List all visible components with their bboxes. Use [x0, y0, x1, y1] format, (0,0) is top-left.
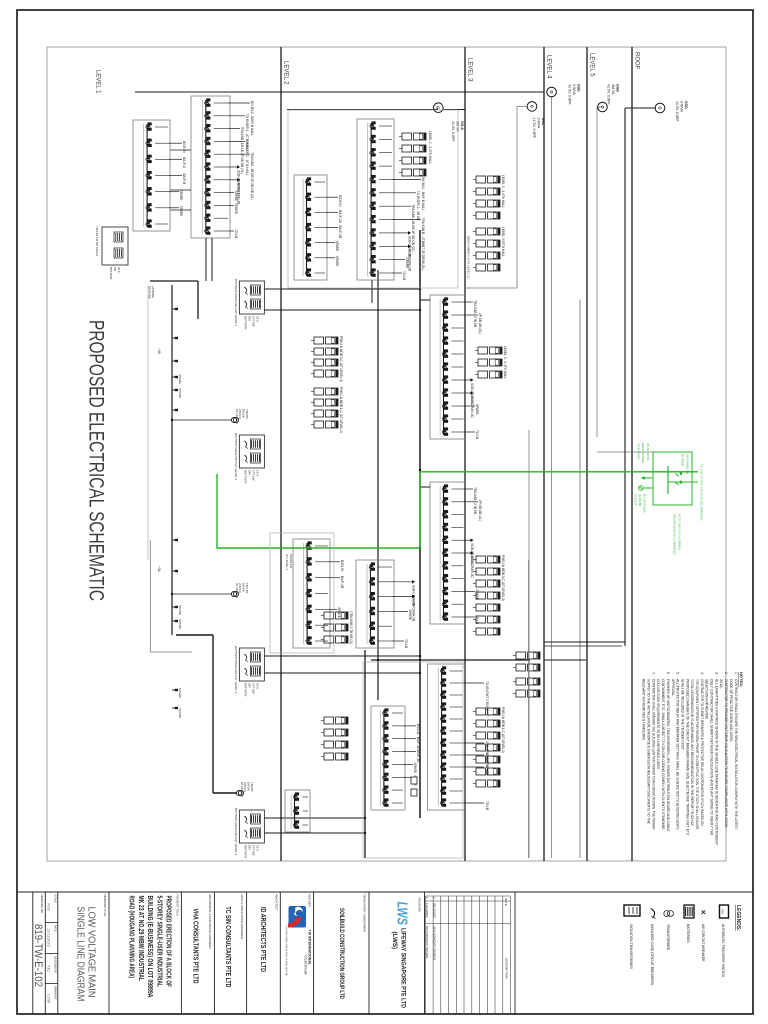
svg-text:SPARE: SPARE — [408, 609, 412, 620]
svg-text:TO RISER 2 - 2B KB: TO RISER 2 - 2B KB — [416, 191, 420, 221]
svg-text:3-IN MAI ROAD #05-02 TECH A MA: 3-IN MAI ROAD #05-02 TECH A MAX S(57 48) — [285, 926, 288, 976]
svg-text:CIVIL & STRUCTURAL ENGINEER: CIVIL & STRUCTURAL ENGINEER — [240, 895, 244, 939]
svg-text:ATS: ATS — [721, 909, 725, 915]
svg-text:3M VA: 3M VA — [455, 121, 459, 132]
svg-text:BATTERY RACK NO 8 AT LEVEL 1: BATTERY RACK NO 8 AT LEVEL 1 — [234, 808, 238, 856]
svg-text:PROPOSED ELECTRICAL SCHEMATIC: PROPOSED ELECTRICAL SCHEMATIC — [85, 320, 108, 601]
svg-text:B/L/F-2B: B/L/F-2B — [338, 226, 342, 239]
svg-text:N.T.S. 2005 C/O 1.6 SERIES: N.T.S. 2005 C/O 1.6 SERIES — [678, 514, 682, 550]
svg-text:05/12/2022: 05/12/2022 — [433, 903, 437, 918]
svg-text:LEVEL 1: LEVEL 1 — [95, 70, 101, 94]
svg-text:SUPPLY TO THE INSTALLATION, EN: SUPPLY TO THE INSTALLATION, ENDORSE & SU… — [647, 679, 651, 824]
svg-text:CreateWealth: CreateWealth — [304, 955, 308, 975]
svg-text:BATTERY RACK NO 8 AT LEVEL 1: BATTERY RACK NO 8 AT LEVEL 1 — [234, 433, 238, 481]
svg-text:BATTERY: BATTERY — [243, 845, 247, 859]
svg-text:5.: 5. — [676, 672, 680, 675]
svg-text:B/L/F-2B: B/L/F-2B — [340, 576, 344, 589]
svg-text:NTS: NTS — [47, 903, 51, 911]
svg-text:41 5V, 0.8PF: 41 5V, 0.8PF — [451, 121, 455, 142]
svg-text:PROPOSED CHANGES OF THE CIRCUI: PROPOSED CHANGES OF THE CIRCUIT BREAKER … — [685, 679, 689, 836]
svg-text:SPARE: SPARE — [335, 256, 339, 267]
svg-text:SCB-CRAH-3C: SCB-CRAH-3C — [470, 396, 474, 418]
svg-text:THE EQUIPMENT OFFERED FOR REVI: THE EQUIPMENT OFFERED FOR REVIEW PRIOR T… — [695, 679, 699, 830]
svg-text:DRAWN BY: DRAWN BY — [54, 986, 57, 1000]
svg-text:PNEU & MDB 1-C (AT LEVEL 1): PNEU & MDB 1-C (AT LEVEL 1) — [501, 707, 505, 753]
svg-text:BATTERY: BATTERY — [243, 316, 247, 330]
svg-text:TRA KAB - 1B KB 2P SB GB (2L): TRA KAB - 1B KB 2P SB GB (2L) — [250, 152, 254, 199]
svg-text:ALL PROTECTIVE RELAY AND BREAK: ALL PROTECTIVE RELAY AND BREAKER SETTING… — [676, 679, 680, 830]
svg-text:SPARE: SPARE — [178, 708, 182, 718]
svg-text:TOTAL DISCRIMINATION IS ACHIEV: TOTAL DISCRIMINATION IS ACHIEVABLE. ANY … — [690, 679, 694, 826]
svg-text:DESIGNED BY: DESIGNED BY — [54, 956, 57, 973]
svg-text:SINGLE LINE DIAGRAM: SINGLE LINE DIAGRAM — [75, 907, 86, 1002]
svg-text:SPITFIRE: SPITFIRE — [148, 286, 152, 299]
svg-text:DEVELOPER / LANDOWNER: DEVELOPER / LANDOWNER — [363, 895, 367, 933]
svg-text:BUILDER: BUILDER — [308, 895, 312, 907]
svg-text:AUTOMATIC TRANSFER SWITCH: AUTOMATIC TRANSFER SWITCH — [721, 924, 725, 978]
svg-text:TO LB: TO LB — [402, 271, 406, 280]
svg-text:TRA KAB-B - 2TB&BT 2P GRSB (2L: TRA KAB-B - 2TB&BT 2P GRSB (2L) — [421, 218, 425, 271]
svg-text:CODE OF PRACTICE SS538 AND SS5: CODE OF PRACTICE SS538 AND SS551. — [729, 679, 733, 743]
svg-text:4.: 4. — [700, 672, 704, 675]
svg-text:SPARE: SPARE — [475, 404, 479, 415]
svg-text:AIR CIRCUIT BREAKER: AIR CIRCUIT BREAKER — [701, 924, 705, 962]
svg-text:PNEU & MDB 3-C (AT LEVEL 3): PNEU & MDB 3-C (AT LEVEL 3) — [339, 336, 343, 382]
svg-text:PROPOSED ERECTION OF A BLOCK O: PROPOSED ERECTION OF A BLOCK OF — [165, 896, 172, 988]
svg-text:G: G — [529, 105, 534, 108]
svg-text:ROAD (HOUGANG PLANNING AREA): ROAD (HOUGANG PLANNING AREA) — [128, 896, 135, 979]
svg-text:PNEU & MDB 3-C (AT LEVEL 3): PNEU & MDB 3-C (AT LEVEL 3) — [501, 555, 505, 601]
svg-text:AT LEVEL 1: AT LEVEL 1 — [285, 554, 289, 570]
svg-text:41 5V, 0.8PF: 41 5V, 0.8PF — [675, 101, 679, 122]
svg-text:MECHANICAL & ELECTRICAL ENGINE: MECHANICAL & ELECTRICAL ENGINEER — [208, 895, 212, 949]
svg-text:TJC: TJC — [47, 965, 51, 972]
svg-text:LEVEL 3 - 3 4TH HALL: LEVEL 3 - 3 4TH HALL — [501, 175, 505, 208]
svg-text:B/L/F-A: B/L/F-A — [182, 157, 186, 169]
svg-text:ALL QUANTITIES & RATINGS SHOWN: ALL QUANTITIES & RATINGS SHOWN IN THE SI… — [714, 679, 718, 846]
svg-text:(LWS): (LWS) — [391, 932, 398, 950]
svg-text:SOILBUILD CONSTRUCTION GROUP L: SOILBUILD CONSTRUCTION GROUP LTD — [338, 908, 345, 999]
svg-text:AT ROOF: AT ROOF — [681, 454, 685, 466]
svg-text:TRA KAB - 2TB KB: TRA KAB - 2TB KB — [473, 487, 477, 514]
svg-text:NOTES:: NOTES: — [739, 672, 744, 687]
svg-text:ID ARCHITECTS PTE LTD: ID ARCHITECTS PTE LTD — [259, 907, 268, 972]
svg-text:BATTERY: BATTERY — [243, 683, 247, 697]
svg-text:+3A: +3A — [157, 566, 161, 573]
svg-text:LEVEL 2 - 3 4TH HALL: LEVEL 2 - 3 4TH HALL — [428, 131, 432, 164]
svg-text:SPARE: SPARE — [337, 607, 341, 618]
svg-text:G: G — [549, 90, 554, 93]
svg-text:B/L/F-3D: B/L/F-3D — [416, 750, 420, 763]
svg-text:GSD: GSD — [684, 101, 688, 109]
svg-text:BATTERY RACK NO 6 AT LEVEL 1: BATTERY RACK NO 6 AT LEVEL 1 — [234, 646, 238, 694]
svg-text:2018.: 2018. — [719, 679, 723, 689]
svg-text:SCALE: SCALE — [54, 895, 57, 904]
svg-text:B/O3 IN: B/O3 IN — [340, 560, 344, 572]
svg-text:DRAWING NO.: DRAWING NO. — [40, 895, 44, 914]
svg-text:SPARE: SPARE — [413, 762, 417, 773]
svg-text:B/Y B/L2 - B/MY B HALL: B/Y B/L2 - B/MY B HALL — [250, 101, 254, 136]
svg-text:SPARE: SPARE — [179, 190, 183, 201]
svg-text:DATE: DATE — [54, 925, 57, 932]
svg-text:TC SIN CONSULTANTS PTE LTD: TC SIN CONSULTANTS PTE LTD — [224, 907, 233, 988]
svg-text:SPARE: SPARE — [405, 258, 409, 269]
svg-text:ISOLATION TRANSFORMER: ISOLATION TRANSFORMER — [629, 924, 633, 969]
svg-text:TO LB: TO LB — [485, 801, 489, 810]
svg-text:MCCB 4P 65KA: MCCB 4P 65KA — [641, 443, 645, 463]
svg-text:G: G — [600, 105, 605, 108]
svg-text:3.: 3. — [714, 672, 718, 675]
svg-text:1.: 1. — [734, 672, 738, 675]
svg-text:TRANSFORMER: TRANSFORMER — [666, 924, 670, 951]
svg-text:11/11/2022: 11/11/2022 — [425, 903, 429, 918]
svg-text:COLOUR CODE REQUIREMENTS TO BE: COLOUR CODE REQUIREMENTS TO BE CONFIRMED… — [656, 679, 660, 770]
svg-text:VHA CONSULTANTS PTE LTD: VHA CONSULTANTS PTE LTD — [192, 909, 201, 984]
svg-text:MECH VMDB 1-C AT LEVEL 11: MECH VMDB 1-C AT LEVEL 11 — [467, 236, 471, 279]
svg-text:SELECTION FOR REVIEW.: SELECTION FOR REVIEW. — [705, 679, 709, 720]
svg-text:BATTERY: BATTERY — [109, 267, 113, 280]
svg-text:CCW: CCW — [47, 994, 51, 1003]
svg-text:SPARE: SPARE — [234, 203, 238, 214]
svg-text:3M VA: 3M VA — [611, 84, 615, 95]
svg-text:CONTRACTOR TO SUBMIT BREAKERS: CONTRACTOR TO SUBMIT BREAKERS & PROTECTI… — [700, 679, 704, 826]
svg-text:SPARE: SPARE — [178, 688, 182, 698]
svg-text:B/L/F-3D: B/L/F-3D — [416, 737, 420, 750]
svg-text:CONTAINMENT, ETC. SHALL SUBJEC: CONTAINMENT, ETC. SHALL SUBJECT TO COLOU… — [661, 679, 665, 830]
svg-text:TO RISER 2 - AT B HALL: TO RISER 2 - AT B HALL — [245, 139, 249, 175]
svg-text:B/O2-B: B/O2-B — [416, 724, 420, 734]
svg-text:4B 2E SW BD: 4B 2E SW BD — [646, 443, 650, 461]
svg-text:DRAWING TITLE: DRAWING TITLE — [103, 895, 107, 917]
svg-text:WP EXISER 3M: WP EXISER 3M — [686, 454, 690, 475]
svg-text:BUILDING (E-BUSINESS) ON LOT 0: BUILDING (E-BUSINESS) ON LOT 09899A — [146, 896, 153, 998]
svg-text:LIFEWAY SINGAPORE PTE LTD: LIFEWAY SINGAPORE PTE LTD — [400, 928, 407, 1008]
svg-text:BATTERY: BATTERY — [243, 470, 247, 484]
svg-text:SPARE: SPARE — [335, 241, 339, 252]
svg-text:G: G — [657, 106, 662, 109]
svg-text:FINISHES OF SWITCHBOARDS, TRAN: FINISHES OF SWITCHBOARDS, TRANSFORMERS, … — [666, 679, 670, 832]
svg-text:41 5V, 0.8PF: 41 5V, 0.8PF — [567, 84, 571, 105]
svg-text:6.: 6. — [666, 672, 670, 675]
svg-text:BATTERY RACK NO 6 AT LEVEL 1: BATTERY RACK NO 6 AT LEVEL 1 — [234, 279, 238, 327]
svg-text:2P SB GB (2L): 2P SB GB (2L) — [478, 313, 482, 334]
svg-text:PROJECT TITLE: PROJECT TITLE — [176, 895, 180, 916]
svg-text:+3A: +3A — [157, 348, 161, 355]
svg-text:AT LEVEL 1: AT LEVEL 1 — [235, 409, 239, 424]
svg-text:RELEVANT AUTHORITIES & LANDLOR: RELEVANT AUTHORITIES & LANDLORD. — [642, 679, 646, 741]
svg-text:SPARE: SPARE — [178, 619, 182, 629]
svg-text:B/L/F-2A: B/L/F-2A — [338, 210, 342, 223]
svg-text:LEVEL 3: LEVEL 3 — [467, 58, 473, 82]
svg-text:ARCHITECT: ARCHITECT — [275, 895, 279, 911]
svg-text:819-TW-E-102: 819-TW-E-102 — [32, 924, 44, 987]
svg-text:3 WVA: 3 WVA — [536, 118, 540, 130]
svg-text:SIGNATURE: SIGNATURE — [418, 897, 422, 912]
svg-text:SPARE: SPARE — [234, 191, 238, 202]
svg-text:SPARE: SPARE — [178, 374, 182, 384]
svg-text:5-STOREY SINGLE-USER INDUSTRIA: 5-STOREY SINGLE-USER INDUSTRIAL — [155, 896, 162, 988]
svg-text:GSC: GSC — [541, 118, 545, 126]
svg-text:2E SW BD: 2E SW BD — [638, 494, 642, 507]
svg-text:TO LB: TO LB — [404, 639, 408, 648]
svg-text:B/L/F-B: B/L/F-B — [182, 174, 186, 185]
svg-text:TO AT ROOF: TO AT ROOF — [636, 443, 640, 460]
svg-text:(TRA KAB-2 TB KB (2)): (TRA KAB-2 TB KB (2)) — [349, 611, 353, 644]
svg-text:APPROVAL.: APPROVAL. — [671, 679, 675, 696]
svg-text:GSE: GSE — [577, 84, 581, 92]
svg-text:PNEU & MDB 1-C (AT LEVEL 1): PNEU & MDB 1-C (AT LEVEL 1) — [339, 387, 343, 433]
svg-text:DATE: DATE — [504, 898, 508, 906]
svg-text:3 WVA: 3 WVA — [679, 101, 683, 113]
svg-text:11/11/2022: 11/11/2022 — [47, 928, 51, 946]
svg-text:CONTRACTOR TO PROVIDE VOLT DRO: CONTRACTOR TO PROVIDE VOLT DROP CALCULAT… — [724, 679, 728, 828]
svg-text:MOULDED CASE CIRCUIT BREAKERS: MOULDED CASE CIRCUIT BREAKERS — [650, 924, 654, 986]
svg-text:0% CONCEPT DESIGN: 0% CONCEPT DESIGN — [425, 926, 429, 958]
svg-text:F83 055 91/607 B1 2 SERVICES: F83 055 91/607 B1 2 SERVICES — [673, 514, 677, 555]
svg-text:7.: 7. — [651, 672, 655, 675]
svg-text:TRA KAB - 2TB KB: TRA KAB - 2TB KB — [473, 300, 477, 327]
svg-text:SPARE: SPARE — [179, 206, 183, 217]
svg-text:DESCRIPTION: DESCRIPTION — [505, 958, 509, 979]
svg-text:35% CONCEPT DESIGN: 35% CONCEPT DESIGN — [433, 926, 437, 960]
svg-text:LOW VOLTAGE MAIN: LOW VOLTAGE MAIN — [86, 907, 97, 998]
svg-text:MCCB 4P 65KA: MCCB 4P 65KA — [643, 494, 647, 513]
svg-text:MK 23 AT NO.29 MBW INDUSTRIAL: MK 23 AT NO.29 MBW INDUSTRIAL — [137, 896, 144, 982]
svg-text:LEVEL 3 50TH HALL: LEVEL 3 50TH HALL — [501, 227, 505, 257]
svg-text:LEVEL 2: LEVEL 2 — [283, 61, 289, 85]
svg-text:41 5V, 0.8PF: 41 5V, 0.8PF — [606, 84, 610, 105]
svg-text:ROOF: ROOF — [634, 52, 640, 70]
svg-text:2.: 2. — [724, 672, 728, 675]
svg-text:LEVEL 4: LEVEL 4 — [546, 55, 552, 79]
svg-text:TO LB: TO LB — [475, 430, 479, 439]
svg-text:LEVEL 5: LEVEL 5 — [589, 53, 595, 77]
svg-text:41 5V, 0.8PF: 41 5V, 0.8PF — [532, 118, 536, 139]
svg-text:GS-A: GS-A — [460, 121, 464, 130]
svg-text:3 WVA: 3 WVA — [572, 84, 576, 96]
svg-text:ONLY. CONTRACTOR SHALL SUBMIT: ONLY. CONTRACTOR SHALL SUBMIT DETAILED C… — [710, 679, 714, 836]
svg-text:SPARE: SPARE — [178, 605, 182, 615]
svg-text:TO LB: TO LB — [234, 229, 238, 238]
svg-text:LWS: LWS — [394, 902, 411, 926]
svg-text:AT LEVEL 1: AT LEVEL 1 — [235, 583, 239, 598]
svg-text:SPARE: SPARE — [178, 388, 182, 398]
svg-text:BY B/L2 - BMY B HALL: BY B/L2 - BMY B HALL — [421, 178, 425, 211]
svg-text:LEVEL 3 - 3 4TH HALL: LEVEL 3 - 3 4TH HALL — [503, 346, 507, 379]
svg-text:CONTRACTOR SHALL ENGAGE THE BU: CONTRACTOR SHALL ENGAGE THE BUILDING LEW… — [651, 679, 655, 830]
svg-text:✕: ✕ — [699, 910, 706, 916]
svg-text:CONTRACTOR SHALL ENSURE THE NE: CONTRACTOR SHALL ENSURE THE NEW ELECTRIC… — [734, 679, 738, 830]
svg-text:TRA KAB - 1B KB 2P SB GB (2L): TRA KAB - 1B KB 2P SB GB (2L) — [240, 127, 244, 174]
svg-text:B/O3 IN: B/O3 IN — [182, 141, 186, 153]
svg-text:AT LEVEL 1: AT LEVEL 1 — [240, 782, 244, 797]
svg-text:LEGENDS:: LEGENDS: — [735, 905, 741, 931]
svg-text:SHALL BE INCLUDED IN THE TENDE: SHALL BE INCLUDED IN THE TENDER COST. — [681, 679, 685, 751]
svg-text:B/O3 IN: B/O3 IN — [338, 195, 342, 207]
svg-text:AT ROOF: AT ROOF — [634, 494, 638, 506]
svg-text:2P SB GB (2L): 2P SB GB (2L) — [478, 500, 482, 521]
svg-text:TO 1 LB 2 PT5 B 3 4/2 3L 50 NO: TO 1 LB 2 PT5 B 3 4/2 3L 50 NO. SERVICES — [700, 464, 704, 521]
svg-text:TB/4-B2 1M 6% 220/1/U: TB/4-B2 1M 6% 220/1/U — [95, 226, 99, 256]
svg-text:BATTERIES: BATTERIES — [686, 924, 690, 943]
svg-text:G: G — [436, 106, 441, 109]
svg-text:GSB: GSB — [616, 84, 620, 92]
